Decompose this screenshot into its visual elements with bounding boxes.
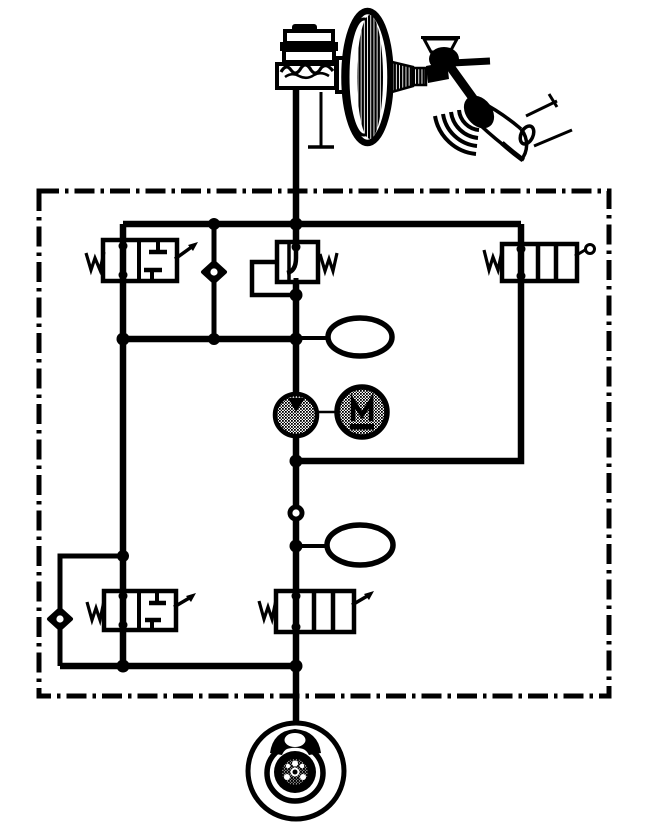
pedal motion arcs bbox=[435, 110, 479, 154]
reservoir cap bbox=[292, 24, 317, 33]
solenoid valve V2 (top right) bbox=[502, 244, 577, 281]
solenoid valve V1 (top left, inlet valve) bbox=[103, 240, 177, 281]
solenoid arrow of V3 bbox=[352, 591, 374, 605]
support rod with foot bbox=[308, 92, 334, 147]
wheel inner rim bbox=[267, 745, 323, 801]
wire branch to accumulator 2 bbox=[296, 544, 330, 548]
solenoid valve V3 (bottom right) bbox=[276, 591, 354, 632]
reservoir upper band bbox=[285, 31, 333, 43]
wire right return loop bbox=[296, 279, 521, 461]
motor M bbox=[337, 387, 387, 437]
check valve CV2 (diamond with hole) on bypass loop bbox=[49, 609, 71, 629]
pushrod link bbox=[426, 62, 449, 83]
accumulator oval A2 bbox=[327, 525, 393, 565]
wire mid horizontal y=339 bbox=[123, 336, 296, 343]
accumulator oval A1 bbox=[328, 318, 392, 356]
wire pump-motor link bbox=[317, 411, 338, 414]
wire main vertical line x=296 bbox=[293, 87, 300, 737]
restrictor valve (ring) on main line bbox=[288, 505, 305, 522]
pedal pad bbox=[458, 90, 501, 134]
pedal pivot bbox=[429, 47, 459, 71]
wire branch to accumulator 1 bbox=[296, 336, 330, 340]
pedal top stub bbox=[452, 61, 490, 63]
junction dots bbox=[117, 218, 303, 673]
pilot symbol of V2 bbox=[575, 245, 595, 257]
wheel hub bbox=[274, 751, 316, 793]
wire check-valve branch x=214 bbox=[212, 224, 217, 339]
spring of V4 bbox=[87, 601, 104, 620]
spring of V3 bbox=[259, 600, 276, 619]
center master-cylinder valve V0 bbox=[277, 242, 318, 282]
wire right vertical into valve V2 bbox=[518, 224, 525, 246]
wire bottom horizontal y=666 bbox=[60, 663, 296, 670]
check valve CV1 (diamond with hole) on x=214 branch bbox=[203, 262, 225, 282]
pedal pivot bracket bbox=[421, 38, 460, 53]
spring of V2 bbox=[484, 250, 502, 270]
wheel outer rim bbox=[248, 723, 344, 819]
brake caliper bbox=[270, 729, 321, 755]
spring of V1 bbox=[86, 252, 104, 270]
solenoid arrow of V4 bbox=[174, 593, 196, 607]
wire top horizontal manifold y=224 bbox=[123, 221, 521, 228]
reservoir dark band bbox=[280, 42, 338, 51]
leg outline lines bbox=[526, 94, 572, 146]
master cylinder body bbox=[277, 64, 336, 88]
vacuum booster bbox=[345, 11, 391, 143]
spring of V0 bbox=[320, 253, 337, 271]
booster pushrod cone bbox=[392, 62, 426, 92]
reservoir lower band bbox=[284, 50, 334, 62]
wire bypass loop of center valve V0 bbox=[252, 262, 296, 295]
solenoid arrow of V1 bbox=[175, 242, 198, 259]
pedal arm bbox=[444, 58, 480, 108]
pump P bbox=[275, 394, 317, 436]
wire left vertical branch x=123 bbox=[120, 224, 127, 666]
solenoid valve V4 (bottom left) bbox=[104, 591, 176, 630]
wire bypass loop of valve V4 bbox=[60, 556, 123, 666]
mounting flange between cylinder and booster bbox=[337, 58, 346, 92]
foot / shoe outline bbox=[468, 96, 536, 160]
dash-dot boundary box of hydraulic unit bbox=[39, 191, 609, 696]
